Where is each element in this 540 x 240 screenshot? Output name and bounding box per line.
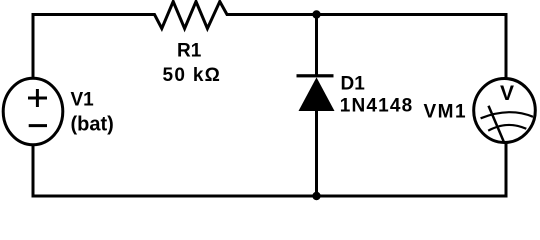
svg-text:V: V [500,82,514,105]
svg-text:V1: V1 [71,90,95,111]
svg-text:50 kΩ: 50 kΩ [163,65,222,86]
svg-text:(bat): (bat) [71,114,114,136]
svg-text:R1: R1 [177,40,202,61]
svg-text:1N4148: 1N4148 [340,96,414,117]
svg-text:D1: D1 [341,73,366,94]
svg-text:VM1: VM1 [424,101,468,122]
